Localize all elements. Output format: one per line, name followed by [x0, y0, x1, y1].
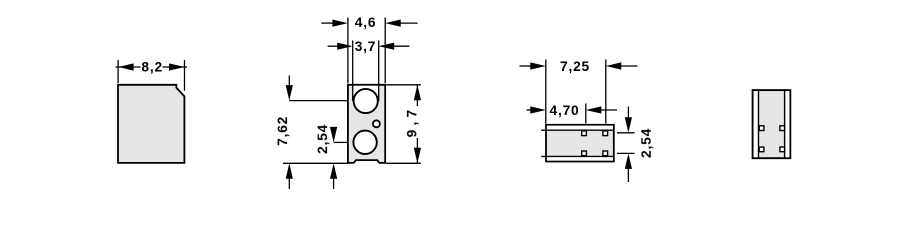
led channel slot — [353, 86, 378, 101]
inner line right — [784, 90, 786, 158]
svg-text:7,62: 7,62 — [275, 116, 290, 146]
bottom extension line shared — [283, 162, 348, 164]
svg-text:3,7: 3,7 — [355, 39, 377, 54]
dim 9,7 top extension line — [386, 84, 421, 86]
dim 9,7 arrow down — [414, 148, 421, 164]
dim 9,7 arrow up — [414, 85, 421, 101]
dim 4,70 extension line right — [585, 104, 587, 124]
svg-text:4,70: 4,70 — [549, 103, 579, 118]
pin v4 bottom-left — [759, 147, 764, 152]
dim 7,25 extension line left — [545, 60, 547, 124]
dim 2,54r top arrow tail — [627, 107, 629, 123]
dim 2,54r bottom arrow tail — [627, 165, 629, 182]
dim 7,25 arrow right — [606, 62, 622, 69]
bottom led hole — [353, 131, 376, 154]
dim 8,2 arrow right — [169, 63, 185, 70]
dim 7,25 tail right — [617, 65, 637, 67]
dim 8,2 arrow left — [118, 63, 134, 70]
dim 7,25 arrow left — [530, 62, 546, 69]
dim 9,7 line lower segment — [416, 138, 418, 163]
dim 9,7 bottom extension line — [386, 162, 421, 164]
dim 7,62 bottom arrow — [286, 163, 293, 179]
dim 2,54r bottom arrow — [625, 153, 632, 169]
pin v4 bottom-right — [780, 147, 785, 152]
svg-text:4,6: 4,6 — [355, 15, 377, 30]
svg-text:8,2: 8,2 — [141, 59, 163, 74]
dim 7,25 extension line right — [605, 60, 607, 124]
dim 4,70 arrow left — [530, 106, 546, 113]
body outline view3 — [546, 125, 614, 162]
white band bottom — [547, 157, 613, 161]
dim 7,62 top extension line — [289, 100, 348, 102]
pin bottom-left — [582, 151, 587, 156]
pin top-left — [582, 131, 587, 136]
dim 3,7 tail right — [390, 45, 409, 47]
dim 4,70 tail right — [597, 109, 617, 111]
dim 3,7 arrow right — [379, 43, 395, 50]
white band top — [547, 126, 613, 130]
pin v4 top-left — [759, 126, 764, 131]
svg-text:9,7: 9,7 — [404, 106, 419, 138]
dim 7,62 top arrow tail — [288, 76, 290, 91]
dim 8,2 extension line right — [184, 60, 186, 91]
white strip left — [754, 91, 758, 157]
body outline view1 — [118, 85, 184, 163]
dim 7,62 bottom arrow tail — [288, 175, 290, 189]
svg-text:2,54: 2,54 — [639, 128, 654, 158]
dim 2,54r top arrow — [625, 117, 632, 133]
top led hole — [354, 89, 378, 113]
body outline view4 — [753, 90, 791, 158]
dim 4,6 extension line left — [347, 18, 349, 84]
band line bottom — [541, 155, 614, 157]
dim 4,6 arrow right — [385, 20, 401, 27]
pin bottom-right — [603, 151, 608, 156]
small hole — [373, 120, 380, 127]
dim 2,54r bottom extension line — [617, 152, 635, 154]
white strip right — [785, 91, 789, 157]
dim 7,25 tail left — [520, 65, 535, 67]
dim 3,7 tail left — [328, 45, 342, 47]
channel wall left / dim 3,7 extension left — [352, 41, 354, 101]
dim 8,2 extension line left — [117, 60, 119, 83]
pin top-right — [603, 131, 608, 136]
dim 4,70 tail left — [527, 109, 535, 111]
svg-text:2,54: 2,54 — [315, 124, 330, 154]
dim 2,54r top extension line — [617, 132, 635, 134]
dim 4,70 arrow right — [586, 106, 602, 113]
dim 7,62 top arrow — [286, 85, 293, 101]
inner line left — [758, 90, 760, 158]
dim 3,7 arrow left — [337, 43, 353, 50]
dim 4,6 tail right — [397, 22, 418, 24]
dim 2,54 top extension line — [334, 141, 348, 143]
band line top — [541, 129, 614, 131]
dim 4,6 arrow left — [332, 20, 348, 27]
dim 2,54 top arrow tail — [333, 128, 335, 132]
dim 4,6 extension line right — [384, 18, 386, 84]
pin v4 top-right — [780, 126, 785, 131]
dim 4,6 tail left — [321, 22, 336, 24]
dim 8,2 line left segment — [116, 66, 141, 68]
body outline view2 with feet — [348, 85, 385, 163]
svg-text:7,25: 7,25 — [560, 59, 590, 74]
dim 2,54 bottom arrow tail — [333, 175, 335, 189]
dim 2,54 bottom arrow — [330, 163, 337, 179]
dim 9,7 line — [416, 85, 418, 106]
dim 2,54 top arrow — [330, 127, 337, 142]
channel wall right / dim 3,7 extension right — [378, 41, 380, 101]
dim 8,2 line right segment — [163, 66, 188, 68]
